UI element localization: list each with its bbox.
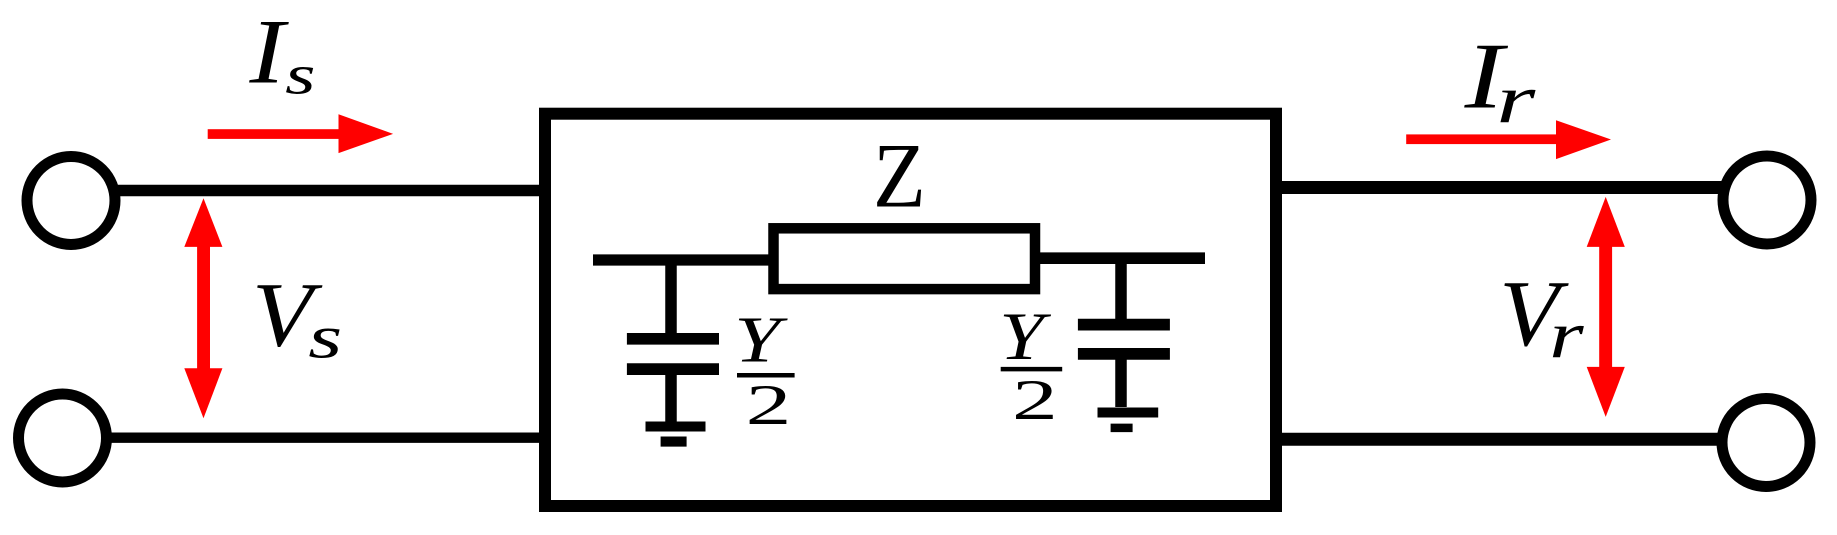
wire bottom-left xyxy=(107,433,551,443)
terminal circle top-left xyxy=(27,157,115,245)
terminal circle bottom-left xyxy=(19,394,107,482)
wire capacitor C1 stem bottom xyxy=(665,369,677,422)
wire top-left xyxy=(115,185,551,197)
svg-text:Y: Y xyxy=(999,299,1051,374)
ground right small bar xyxy=(1111,424,1133,433)
ground left bar xyxy=(646,421,706,431)
svg-text:r: r xyxy=(1496,61,1535,137)
svg-text:s: s xyxy=(308,304,342,372)
voltage arrow Vs xyxy=(184,198,222,418)
wire mid-right xyxy=(1030,252,1205,264)
ground right bar xyxy=(1098,407,1159,417)
fraction bar right xyxy=(1001,367,1062,372)
capacitor C1 plate top xyxy=(627,333,719,345)
current arrow Is xyxy=(208,114,393,153)
resistor Z xyxy=(774,228,1036,289)
capacitor C1 plate bottom xyxy=(627,363,719,375)
voltage arrow Vr xyxy=(1587,197,1625,417)
ground left small bar xyxy=(661,437,687,447)
wire capacitor C2 stem top xyxy=(1115,258,1127,319)
capacitor C2 plate top xyxy=(1078,319,1170,331)
wire bottom-right xyxy=(1271,433,1721,446)
svg-text:2: 2 xyxy=(746,374,792,437)
terminal circle bottom-right xyxy=(1722,399,1810,487)
svg-text:2: 2 xyxy=(1012,369,1058,432)
current arrow Ir xyxy=(1406,120,1611,159)
svg-text:I: I xyxy=(248,0,289,102)
svg-text:r: r xyxy=(1549,298,1585,373)
capacitor C2 plate bottom xyxy=(1078,348,1170,360)
two-port box xyxy=(545,114,1276,506)
wire mid-left xyxy=(593,254,790,265)
svg-text:s: s xyxy=(285,45,315,107)
wire capacitor C2 stem bottom xyxy=(1115,354,1127,407)
terminal circle top-right xyxy=(1723,156,1811,244)
wire top-right xyxy=(1271,181,1722,194)
wire capacitor C1 stem top xyxy=(665,260,677,333)
svg-text:Z: Z xyxy=(873,125,926,227)
fraction bar left xyxy=(737,373,795,378)
